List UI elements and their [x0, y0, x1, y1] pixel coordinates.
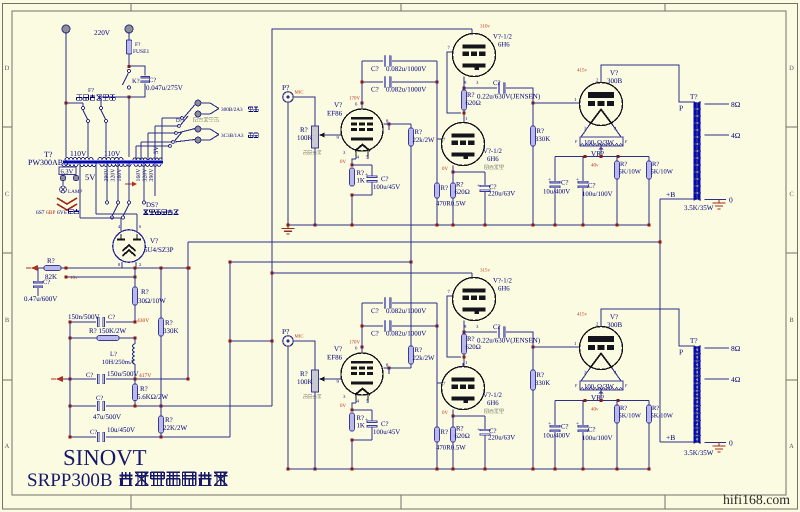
svg-text:+: + [548, 177, 551, 183]
ground bus [288, 224, 649, 226]
wire 6H6 grid down [447, 296, 461, 357]
wire B+ riser x188 [187, 242, 189, 379]
svg-text:B: B [5, 317, 10, 324]
svg-text:R?: R? [300, 126, 308, 134]
output transformer T core [694, 102, 701, 200]
svg-text:100u/45V: 100u/45V [373, 184, 400, 191]
svg-text:C?: C? [43, 279, 50, 286]
node 300B grid [531, 101, 534, 104]
labels 300B [574, 312, 623, 377]
svg-text:D: D [789, 65, 794, 72]
output transformer windings [693, 102, 700, 200]
svg-text:22k/2W: 22k/2W [413, 355, 435, 362]
wire EF86 cathode to RC [352, 157, 368, 167]
selector switch D3 label [176, 118, 218, 125]
node line5 [68, 435, 162, 438]
wire grid stub to 6H6 [437, 382, 442, 384]
switch F2 poles and blades [66, 97, 129, 123]
svg-text:5K/10W: 5K/10W [619, 413, 642, 420]
connector P input jack [282, 327, 304, 346]
svg-text:R?: R? [47, 257, 55, 265]
rectifier tube V1 5U4/SZ3P [113, 230, 174, 262]
svg-text:3.5K/35W: 3.5K/35W [684, 449, 714, 457]
wire 10u line [70, 426, 230, 442]
wire x230 riser [229, 262, 231, 437]
wire EF86 anode to coupling caps [361, 347, 363, 353]
svg-text:22k/2W: 22k/2W [413, 137, 435, 144]
svg-text:SRPP300B: SRPP300B [27, 470, 113, 491]
node filter bus [583, 155, 619, 169]
svg-text:6H6: 6H6 [498, 42, 510, 49]
svg-text:320V: 320V [111, 168, 117, 182]
svg-text:R?: R? [537, 128, 545, 135]
wire filter bus y156 [555, 156, 649, 158]
transformer T1 secondary windings [62, 164, 161, 167]
svg-text:620Ω: 620Ω [466, 100, 481, 107]
labels 300B [574, 68, 623, 133]
svg-text:D: D [5, 65, 10, 72]
svg-text:SINOVT: SINOVT [63, 445, 147, 470]
wire 6H6 lower cathode [451, 166, 485, 174]
wire pot bottom to ground [314, 148, 316, 225]
wire R620 to lower 6H6 plate [462, 354, 468, 367]
svg-text:4Ω: 4Ω [731, 131, 741, 140]
svg-text:+: + [477, 183, 480, 189]
svg-text:0.082u/1000V: 0.082u/1000V [386, 307, 426, 315]
node cathode box bottom [350, 193, 353, 196]
node SRPP cathode out [462, 86, 465, 89]
wire 6H6 grid bus x437 [436, 61, 438, 183]
svg-text:110V: 110V [104, 149, 121, 158]
switch K1 [123, 69, 140, 89]
svg-text:EF86: EF86 [327, 110, 343, 118]
svg-text:R?: R? [300, 370, 308, 378]
wire EF86 anode to coupling caps [361, 103, 363, 109]
svg-text:0.22u/630V(JENSEN): 0.22u/630V(JENSEN) [477, 337, 541, 345]
frame zone letters [5, 65, 795, 450]
resistor R 470R 0.5W grid leak [435, 427, 467, 469]
transformer T1 core [63, 160, 163, 163]
filament arrow chevrons red [57, 198, 77, 210]
HV secondary tap wires [106, 164, 156, 204]
svg-text:+: + [576, 421, 579, 427]
labels 6H6 lower [442, 381, 503, 416]
tap 8 ohm [705, 344, 741, 353]
capacitor C 0.082u/1000V first [362, 298, 437, 315]
svg-text:1K: 1K [357, 178, 365, 185]
svg-text:3.5K/35W: 3.5K/35W [684, 204, 714, 212]
svg-text:F?: F? [88, 88, 94, 94]
resistor R 5K/10W first [615, 157, 642, 226]
wire pot bottom to ground [314, 392, 316, 469]
wire 6H6 lower cathode [451, 410, 485, 418]
svg-text:P: P [679, 104, 683, 113]
tube V 6H6 upper 6H6 half [453, 278, 496, 321]
resistor R 1K cathode [350, 163, 372, 186]
node line3 [68, 377, 136, 380]
output transformer windings [693, 346, 700, 443]
svg-text:470R0.5W: 470R0.5W [436, 445, 466, 452]
svg-text:V?: V? [610, 69, 618, 77]
svg-text:EF86: EF86 [327, 354, 343, 362]
svg-text:8Ω: 8Ω [731, 100, 741, 109]
capacitor C 0.47u/600V [24, 268, 57, 303]
svg-text:415v: 415v [577, 68, 588, 74]
svg-text:5K/10W: 5K/10W [619, 169, 642, 176]
fuse F1 [126, 38, 149, 56]
svg-text:150n/500V: 150n/500V [68, 313, 100, 321]
choke L 10H/250mA [102, 338, 135, 379]
svg-text:150u/500V: 150u/500V [107, 370, 139, 378]
svg-text:R?: R? [415, 347, 423, 354]
resistor R 5K/10W first [615, 401, 642, 470]
tap 4 ohm [705, 375, 741, 384]
svg-text:6H6: 6H6 [498, 286, 510, 293]
capacitor C 100u/100V filter [576, 157, 613, 226]
svg-text:T?: T? [690, 93, 698, 101]
svg-text:100K: 100K [297, 134, 313, 142]
svg-text:R?: R? [456, 426, 464, 433]
wire 220V left leg [65, 32, 67, 157]
resistor R 330K grid leak 300B [531, 103, 551, 225]
capacitor C 0.082u/1000V first [362, 56, 437, 73]
svg-text:0.22u/630V(JENSEN): 0.22u/630V(JENSEN) [477, 93, 541, 101]
tap 0 and speaker ground [705, 439, 734, 453]
node pot ground [313, 467, 316, 470]
svg-text:315v: 315v [480, 268, 491, 274]
svg-text:620Ω: 620Ω [455, 189, 470, 196]
svg-text:0.082u/1000V: 0.082u/1000V [386, 65, 426, 73]
node EF86 anode top [360, 101, 363, 104]
svg-text:8Ω: 8Ω [731, 344, 741, 353]
svg-text:C?: C? [381, 176, 389, 183]
selector bracket wires upper [201, 103, 258, 114]
svg-text:220u/63V: 220u/63V [488, 191, 515, 198]
wire switch to winding taps [88, 123, 106, 158]
svg-text:P: P [679, 348, 683, 357]
svg-text:47u/500V: 47u/500V [93, 413, 121, 421]
capacitor C 220u/63V cathode bypass [477, 416, 515, 469]
wire R22k from B+ x411 [410, 262, 412, 346]
svg-text:0.082u/1000V: 0.082u/1000V [386, 330, 426, 338]
svg-text:Ω/3W: Ω/3W [597, 384, 614, 391]
node line4 [68, 404, 162, 407]
selector switch wires [136, 105, 195, 161]
svg-text:R?: R? [456, 182, 464, 189]
svg-text:R?: R? [357, 415, 365, 422]
svg-text:415v: 415v [577, 312, 588, 318]
capacitor C 100u/45V cathode bypass [352, 410, 400, 440]
node SRPP cathode out [462, 330, 465, 333]
labels 6H6 upper [448, 268, 513, 331]
potentiometer R 100K volume [297, 370, 325, 398]
resistor R 150K/2W [70, 327, 136, 340]
svg-text:470R0.5W: 470R0.5W [436, 201, 466, 208]
resistor R 620 SRPP upper [462, 90, 481, 110]
lamp symbol [60, 181, 83, 196]
switch F2 dual pole label [77, 88, 116, 100]
node bias line ends [64, 275, 136, 278]
svg-text:R?: R? [441, 429, 449, 436]
wire B+ line y268 [61, 267, 189, 269]
6.3V terminals [60, 175, 78, 180]
selector bracket wires lower [201, 129, 258, 140]
svg-text:417V: 417V [139, 373, 151, 379]
svg-text:R?: R? [140, 385, 148, 393]
wire 220V right leg upper [128, 32, 130, 38]
rectifier anode pin wires [118, 224, 142, 231]
resistor R 5.6K/2W [133, 379, 169, 406]
svg-text:+B: +B [666, 190, 675, 199]
labels transformer T [666, 93, 714, 212]
svg-text:310v: 310v [480, 24, 491, 30]
capacitor C 10u/400V filter [543, 157, 570, 226]
wire B+ rail x272 [272, 29, 472, 406]
svg-text:C?: C? [371, 307, 379, 315]
wire pot wiper to grid [324, 378, 341, 380]
wire filter line1 150n [68, 313, 136, 327]
wire left filter bus [69, 322, 71, 437]
wire 6H6 grid down [447, 52, 461, 113]
capacitor C 100u/45V cathode bypass [352, 165, 400, 195]
labels 6H6 upper [448, 24, 513, 87]
switch DS2 [111, 201, 179, 219]
svg-text:22K/2W: 22K/2W [163, 424, 188, 432]
resistor R 22k/2W anode load [409, 128, 435, 146]
svg-text:C?: C? [96, 395, 103, 402]
svg-text:R?: R? [441, 185, 449, 192]
svg-text:320V: 320V [143, 168, 149, 182]
svg-text:C: C [5, 191, 9, 198]
node EF86 anode pin8 [387, 366, 390, 369]
resistor R 470R 0.5W grid leak [435, 183, 467, 225]
svg-text:B: B [789, 317, 794, 324]
svg-text:6.3V: 6.3V [61, 169, 74, 176]
svg-text:300B/2A3: 300B/2A3 [221, 107, 243, 113]
svg-text:0V: 0V [442, 166, 449, 172]
svg-text:40v: 40v [591, 163, 599, 169]
svg-text:MIC: MIC [295, 90, 304, 96]
node line1 [68, 320, 136, 323]
capacitor C 100u/100V filter [576, 401, 613, 470]
svg-text:R?: R? [467, 92, 475, 99]
svg-text:R?: R? [620, 405, 627, 412]
selector switch terminals 300B heaters [195, 100, 201, 143]
resistor R 22k/2W anode load lower [409, 346, 435, 364]
tube V EF86 EF86 [341, 353, 383, 401]
svg-text:5K/10W: 5K/10W [651, 413, 674, 420]
resistor R 5K/10W second [647, 401, 674, 470]
svg-text:R?: R? [620, 161, 627, 168]
svg-text:L?: L? [110, 351, 117, 358]
wire +B to transformer [660, 198, 694, 200]
transformer T1 primary windings [65, 157, 162, 160]
wire pin8 to R22k lower [384, 364, 411, 374]
potentiometer R 100K volume [297, 126, 325, 154]
capacitor C 0.047u/275V across K1 [129, 66, 183, 97]
svg-text:6H6: 6H6 [487, 156, 499, 163]
wire jack to volume pot [293, 341, 315, 370]
label 6.3V winding [59, 167, 76, 176]
svg-text:4Ω: 4Ω [731, 375, 741, 384]
tube V 300B 300B [580, 83, 623, 126]
svg-text:160V: 160V [136, 168, 142, 182]
svg-text:100: 100 [584, 384, 595, 391]
wire lower channel pin connections [462, 363, 464, 367]
svg-text:300B: 300B [607, 77, 623, 85]
svg-text:430V: 430V [137, 318, 149, 324]
tube V 300B 300B [580, 327, 623, 370]
resistor R 330K screen [159, 268, 179, 336]
svg-text:100K: 100K [297, 378, 313, 386]
svg-text:220u/63V: 220u/63V [488, 435, 515, 442]
svg-text:MIC: MIC [295, 334, 304, 340]
svg-text:6S7: 6S7 [36, 210, 45, 216]
ground bus [288, 468, 649, 470]
wire filter line4 47u [70, 395, 272, 421]
HV center tap ground arrow red [125, 182, 137, 187]
svg-text:+: + [576, 177, 579, 183]
svg-text:100u/100V: 100u/100V [582, 191, 613, 198]
svg-text:C?: C? [588, 183, 596, 190]
svg-text:3C3B/1A3: 3C3B/1A3 [221, 133, 244, 139]
wire cathode to ground bus [351, 430, 353, 432]
labels transformer T [666, 337, 714, 457]
node 300B grid [531, 345, 534, 348]
ground bus junction dots [286, 467, 650, 470]
svg-text:+B: +B [666, 433, 675, 442]
rectifier cathode pins to B+ line [118, 262, 141, 268]
svg-text:R?: R? [165, 416, 173, 424]
node coupling junctions [360, 80, 438, 83]
svg-text:390V: 390V [149, 168, 155, 182]
output transformer T core [694, 346, 701, 443]
tube V 6H6 lower 6H6 half [442, 367, 485, 410]
svg-text:C?: C? [108, 314, 115, 321]
node 220V left tap [64, 101, 67, 104]
resistor R 5K/10W second [647, 157, 674, 226]
svg-text:+: + [365, 417, 368, 423]
svg-text:5V: 5V [153, 146, 160, 154]
node EF86 anode pin8 [387, 122, 390, 125]
svg-text:5V: 5V [85, 172, 96, 182]
label 6S7 6BP 6V6 heaters [36, 209, 79, 216]
capacitor C 0.082u/1000V second [362, 321, 437, 338]
wire R620 to lower 6H6 plate [462, 110, 468, 123]
wire B+ drop to output stages x660 [659, 199, 661, 442]
node B+ riser taps [186, 266, 189, 380]
hum pot VR 100R/3W [575, 368, 628, 402]
svg-text:V?-1/2: V?-1/2 [493, 34, 512, 41]
node filter bus [583, 399, 619, 413]
svg-text:V?: V? [334, 345, 342, 353]
ground bus junction dots [286, 223, 650, 226]
svg-text:6BP: 6BP [46, 210, 55, 216]
resistor R 82K bias [44, 257, 61, 281]
wire grid stub to 6H6 [437, 138, 442, 140]
wire 6H6 grid bus x437 [436, 303, 438, 427]
svg-text:0.082u/1000V: 0.082u/1000V [386, 86, 426, 94]
node coupling junctions [360, 324, 438, 327]
svg-text:0V: 0V [442, 410, 449, 416]
svg-text:+: + [548, 421, 551, 427]
terminal 220V left [62, 25, 70, 33]
svg-text:6H6: 6H6 [487, 400, 499, 407]
svg-text:0V: 0V [340, 159, 347, 165]
svg-text:0.47u/600V: 0.47u/600V [24, 295, 57, 303]
tube V 6H6 lower 6H6 half [442, 123, 485, 166]
svg-text:C?: C? [149, 77, 156, 84]
terminal 220V right [125, 25, 133, 33]
svg-text:V?-1/2: V?-1/2 [483, 148, 502, 155]
node switch bottom [127, 95, 130, 98]
svg-text:10u/400V: 10u/400V [543, 189, 570, 196]
hum pot VR 100R/3W [575, 124, 628, 158]
wire jack to volume pot [293, 97, 315, 126]
svg-text:5U4/SZ3P: 5U4/SZ3P [144, 246, 174, 254]
wire to 300B grid [533, 102, 579, 104]
wire +B to transformer [660, 441, 694, 443]
transformer T1 labels [28, 149, 121, 167]
connector P input jack [282, 83, 304, 102]
svg-text:+: + [477, 427, 480, 433]
svg-text:170V: 170V [349, 340, 361, 346]
svg-text:C?: C? [381, 421, 389, 428]
wire jack shield to ground bus [287, 102, 289, 225]
wire jack shield to ground bus [287, 346, 289, 469]
svg-text:620Ω: 620Ω [455, 433, 470, 440]
svg-text:V?: V? [610, 313, 618, 321]
tap 8 ohm [705, 100, 741, 109]
wire coupling riser [361, 303, 363, 347]
node B+ taps [133, 266, 190, 269]
svg-text:R?: R? [652, 405, 659, 412]
wire filter line3 150u [51, 370, 188, 384]
wire pot wiper to grid [324, 134, 341, 136]
wire plate top stub [471, 29, 473, 34]
node R82K junction [64, 266, 67, 269]
svg-text:DS?: DS? [146, 201, 158, 209]
secondary HV tap labels rotated [104, 168, 155, 182]
wire plate top stub [471, 273, 473, 278]
svg-text:C?: C? [371, 65, 379, 73]
tube V 6H6 upper 6H6 half [453, 34, 496, 77]
node pot ground [313, 223, 316, 226]
wire 300B plate to transformer P [601, 65, 694, 102]
svg-text:R? 150K/2W: R? 150K/2W [89, 327, 127, 335]
svg-text:6V6: 6V6 [57, 210, 67, 216]
svg-text:R?: R? [415, 129, 423, 136]
svg-text:C?: C? [561, 424, 569, 431]
svg-text:C?: C? [493, 80, 501, 87]
svg-text:F?: F? [135, 42, 141, 48]
resistor R 22K/2W bleeder [159, 336, 188, 437]
capacitor C 0.082u/1000V second [362, 77, 437, 94]
resistor R 620 SRPP upper [462, 334, 481, 354]
svg-text:C?: C? [588, 427, 596, 434]
node line2 [68, 336, 136, 339]
svg-text:170V: 170V [349, 96, 361, 102]
tube V EF86 EF86 [341, 109, 383, 157]
svg-text:V?: V? [150, 237, 158, 245]
svg-text:300B: 300B [607, 321, 623, 329]
svg-text:+: + [365, 172, 368, 178]
wire EF86 cathode to RC [352, 401, 368, 411]
svg-text:FUSE1: FUSE1 [133, 49, 149, 55]
svg-text:Ω/3W: Ω/3W [597, 140, 614, 147]
tap 0 and speaker ground [705, 196, 734, 210]
svg-text:5K/10W: 5K/10W [651, 169, 674, 176]
